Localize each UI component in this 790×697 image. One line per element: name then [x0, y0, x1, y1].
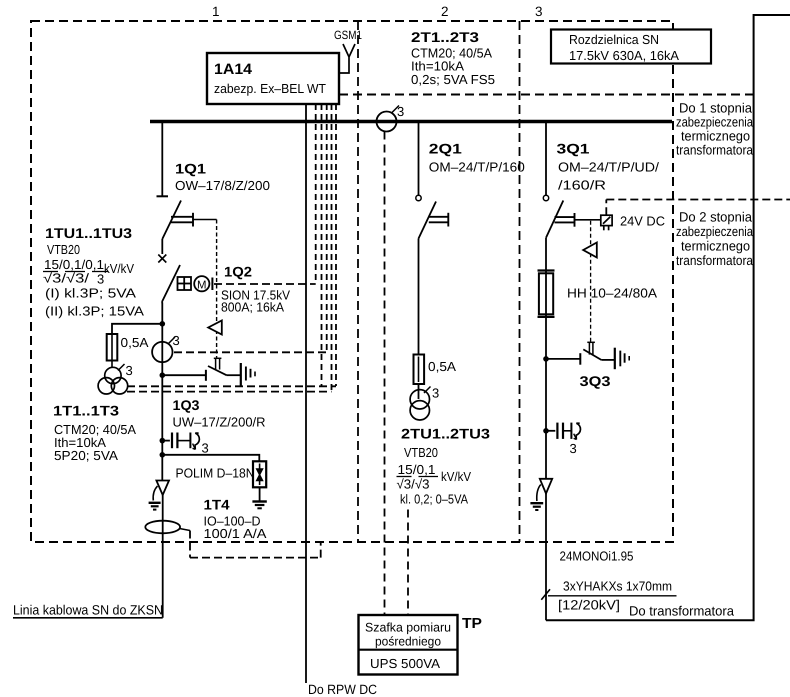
svg-text:3: 3	[432, 386, 439, 401]
svg-text:1Q3: 1Q3	[173, 397, 200, 413]
2TU phase tick 3	[424, 387, 431, 394]
relay box 1A14	[207, 53, 339, 104]
wire 1Q1 to x	[161, 239, 163, 254]
svg-text:VTB20: VTB20	[404, 445, 438, 460]
svg-text:TP: TP	[462, 616, 482, 632]
separable connector 1Q3	[162, 433, 199, 450]
2Q1 blade	[419, 202, 437, 239]
svg-text:Do RPW DC: Do RPW DC	[308, 682, 377, 697]
svg-text:3Q1: 3Q1	[557, 141, 590, 157]
svg-text:/160/R: /160/R	[558, 178, 606, 193]
svg-text:3: 3	[570, 441, 577, 456]
voltage transformer 1TU 3-phase circles	[98, 367, 128, 394]
ground bay1 earthing switch	[241, 363, 255, 386]
outgoing cable wire bay3	[545, 494, 547, 621]
fuse HH 10-24/80A	[538, 271, 555, 317]
svg-text:(II) kl.3P; 15VA: (II) kl.3P; 15VA	[45, 304, 144, 319]
svg-text:[12/20kV]: [12/20kV]	[558, 598, 620, 613]
svg-text:0,2s; 5VA FS5: 0,2s; 5VA FS5	[411, 72, 495, 87]
blocking triangle bay3	[583, 243, 597, 258]
svg-text:1T4: 1T4	[204, 497, 230, 513]
svg-text:15/0,1: 15/0,1	[398, 462, 436, 477]
svg-text:kV/kV: kV/kV	[104, 261, 134, 276]
cable slash mark	[541, 589, 550, 600]
svg-text:termicznego: termicznego	[681, 239, 750, 254]
voltage transformer 2TU circles	[410, 390, 429, 420]
svg-text:1T1..1T3: 1T1..1T3	[53, 403, 119, 419]
node earthing branch	[160, 372, 166, 378]
svg-text:2T1..2T3: 2T1..2T3	[411, 29, 479, 45]
svg-text:termicznego: termicznego	[681, 129, 750, 144]
svg-text:√3/√3: √3/√3	[397, 477, 430, 492]
secondary wiring dashed rows	[127, 385, 336, 387]
svg-text:Do 2 stopnia: Do 2 stopnia	[679, 210, 752, 225]
wire to VT fuse	[112, 324, 162, 334]
cable termination bay1	[156, 481, 169, 496]
blocking triangle bay1	[208, 321, 222, 335]
svg-text:1Q2: 1Q2	[224, 264, 252, 280]
svg-text:UW–17/Z/200/R: UW–17/Z/200/R	[173, 415, 266, 430]
svg-text:1: 1	[212, 4, 220, 19]
earthing switch 3Q3	[546, 358, 580, 360]
1Q2 trip unit square	[178, 277, 192, 290]
separable connector bay3	[546, 423, 580, 440]
header separator dashed	[339, 94, 753, 96]
measurement wire 2TU to TP	[407, 510, 409, 616]
svg-text:1A14: 1A14	[214, 61, 253, 78]
svg-text:GSM1: GSM1	[334, 28, 362, 42]
svg-text:3: 3	[126, 363, 133, 378]
breaker 1Q2 blade	[162, 265, 180, 302]
bay separator 2/3	[519, 21, 521, 542]
1Q1 bottom contact tick	[157, 195, 169, 197]
busbar	[150, 120, 672, 123]
svg-text:24MONOi1.95: 24MONOi1.95	[560, 549, 634, 564]
x contact symbol	[158, 255, 166, 263]
earthing switch bay1	[162, 374, 206, 376]
svg-text:17.5kV 630A, 16kA: 17.5kV 630A, 16kA	[569, 48, 679, 63]
termination ground	[149, 503, 161, 510]
outgoing cable wire bay1	[162, 495, 164, 618]
2Q1 drive bars	[429, 213, 449, 227]
wire 1Q2 down	[161, 302, 163, 303]
svg-text:3: 3	[173, 333, 180, 348]
control wire d4	[331, 104, 333, 392]
svg-text:24V DC: 24V DC	[620, 214, 665, 229]
24V DC supply symbol	[601, 215, 612, 230]
1Q2 motor M	[194, 276, 209, 291]
svg-text:Do 1 stopnia: Do 1 stopnia	[679, 101, 752, 116]
svg-text:UPS 500VA: UPS 500VA	[370, 656, 440, 671]
svg-text:3Q3: 3Q3	[580, 373, 611, 389]
earthing switch actuator	[214, 358, 222, 369]
metering box TP	[359, 615, 458, 675]
fuse 0,5A bay1	[111, 334, 113, 367]
CT secondary dashed wire	[174, 351, 327, 353]
3Q1 blade	[546, 201, 563, 238]
svg-text:3xYHAKXs 1x70mm: 3xYHAKXs 1x70mm	[563, 579, 672, 594]
24V control wire dashed	[606, 200, 790, 216]
control bus solid wire to Do RPW DC	[305, 104, 307, 683]
surge arrester POLIM D-18N	[253, 461, 266, 487]
svg-text:zabezp. Ex–BEL WT: zabezp. Ex–BEL WT	[214, 81, 326, 96]
3Q1 drive bars	[555, 213, 575, 227]
svg-text:3: 3	[535, 4, 543, 19]
CT 3 on busbar	[377, 112, 397, 132]
node surge arrester branch	[160, 452, 166, 458]
3Q1 top contact circle	[543, 195, 548, 200]
svg-text:kV/kV: kV/kV	[441, 469, 471, 484]
svg-text:100/1 A/A: 100/1 A/A	[204, 526, 267, 541]
svg-text:transformatora: transformatora	[676, 143, 753, 158]
svg-text:0,5A: 0,5A	[121, 335, 149, 350]
control wire d2	[321, 104, 323, 386]
svg-text:HH 10–24/80A: HH 10–24/80A	[567, 286, 657, 301]
wire to POLIM arrester	[162, 455, 259, 462]
svg-text:1TU1..1TU3: 1TU1..1TU3	[45, 225, 132, 241]
svg-text:(I) kl.3P; 5VA: (I) kl.3P; 5VA	[45, 286, 136, 301]
svg-text:Rozdzielnica SN: Rozdzielnica SN	[569, 32, 659, 47]
1Q1 drive bars	[171, 213, 193, 227]
1Q1 blade	[162, 201, 181, 240]
ground 3Q3	[615, 348, 629, 370]
svg-text:pośredniego: pośredniego	[375, 635, 441, 649]
wire 2Q1 to fuse	[418, 239, 420, 400]
POLIM ground	[259, 487, 261, 500]
node fuse branch	[160, 321, 166, 327]
switchboard label box Rozdzielnica SN	[551, 30, 711, 64]
bay separator 1/2	[357, 21, 359, 542]
transformer feeder duct	[546, 15, 790, 620]
svg-text:5P20; 5VA: 5P20; 5VA	[54, 448, 118, 463]
toroidal CT 1T4 ellipse	[145, 521, 180, 534]
fuse 0,5A bay2	[414, 355, 425, 385]
control wire d5	[335, 104, 337, 386]
svg-text:OM–24/T/P/UD/: OM–24/T/P/UD/	[558, 160, 659, 175]
breaker 3Q1 feeder wire	[545, 123, 547, 195]
cabinet outline dashed box	[31, 21, 673, 542]
node 1Q3 connector	[160, 438, 166, 444]
svg-text:Do transformatora: Do transformatora	[629, 604, 734, 619]
wire 3Q1 to fuse	[545, 238, 547, 359]
svg-text:OW–17/8/Z/200: OW–17/8/Z/200	[175, 178, 270, 193]
svg-text:transformatora: transformatora	[676, 253, 753, 268]
svg-text:OM–24/T/P/160: OM–24/T/P/160	[429, 160, 525, 175]
svg-text:Szafka pomiaru: Szafka pomiaru	[365, 621, 451, 635]
svg-text:POLIM D–18N: POLIM D–18N	[176, 466, 255, 481]
svg-text:M: M	[197, 280, 207, 292]
node 3Q3 branch	[543, 356, 549, 362]
control wire d1 to 1Q2	[315, 104, 317, 284]
svg-text:1Q1: 1Q1	[175, 161, 206, 177]
1Q2 control wire dashed	[214, 283, 316, 285]
interlock link 1Q1 to earthing switch	[193, 219, 217, 221]
wire drive to 24V supply	[575, 219, 602, 221]
1Q2 terminal tick	[211, 278, 213, 291]
3Q3 actuator	[587, 342, 595, 354]
svg-text:2: 2	[441, 4, 449, 19]
control wire d3 to CT row	[326, 104, 328, 352]
2Q1 top contact circle	[416, 195, 421, 200]
disconnector 1Q1 feeder wire	[161, 123, 163, 196]
svg-text:0,5A: 0,5A	[428, 359, 456, 374]
svg-text:zabezpieczenia: zabezpieczenia	[676, 224, 753, 239]
svg-text:800A; 16kA: 800A; 16kA	[221, 300, 284, 315]
svg-text:√3/√3/: √3/√3/	[43, 271, 89, 286]
breaker 2Q1 feeder wire	[418, 123, 420, 195]
svg-text:3: 3	[202, 441, 209, 456]
interlock wire 3Q1	[590, 221, 592, 342]
svg-text:2TU1..2TU3: 2TU1..2TU3	[401, 426, 490, 442]
wire to cable termination bay3	[545, 359, 547, 479]
termination ground bay3	[530, 503, 543, 510]
1TU phase tick 3	[118, 364, 125, 371]
1T4 secondary wire	[180, 529, 191, 531]
svg-text:2Q1: 2Q1	[429, 141, 462, 157]
measurement wire from busbar CT to TP box	[384, 132, 386, 616]
svg-text:3: 3	[397, 104, 404, 119]
node connector bay3	[543, 428, 549, 434]
cable termination bay3	[540, 479, 552, 494]
svg-text:Linia kablowa SN do ZKSN: Linia kablowa SN do ZKSN	[13, 603, 163, 618]
svg-text:VTB20: VTB20	[47, 242, 80, 257]
current transformer 1T1..1T3 circle	[152, 342, 172, 362]
svg-text:zabezpieczenia: zabezpieczenia	[676, 115, 753, 130]
svg-text:kl. 0,2; 0–5VA: kl. 0,2; 0–5VA	[400, 492, 468, 507]
